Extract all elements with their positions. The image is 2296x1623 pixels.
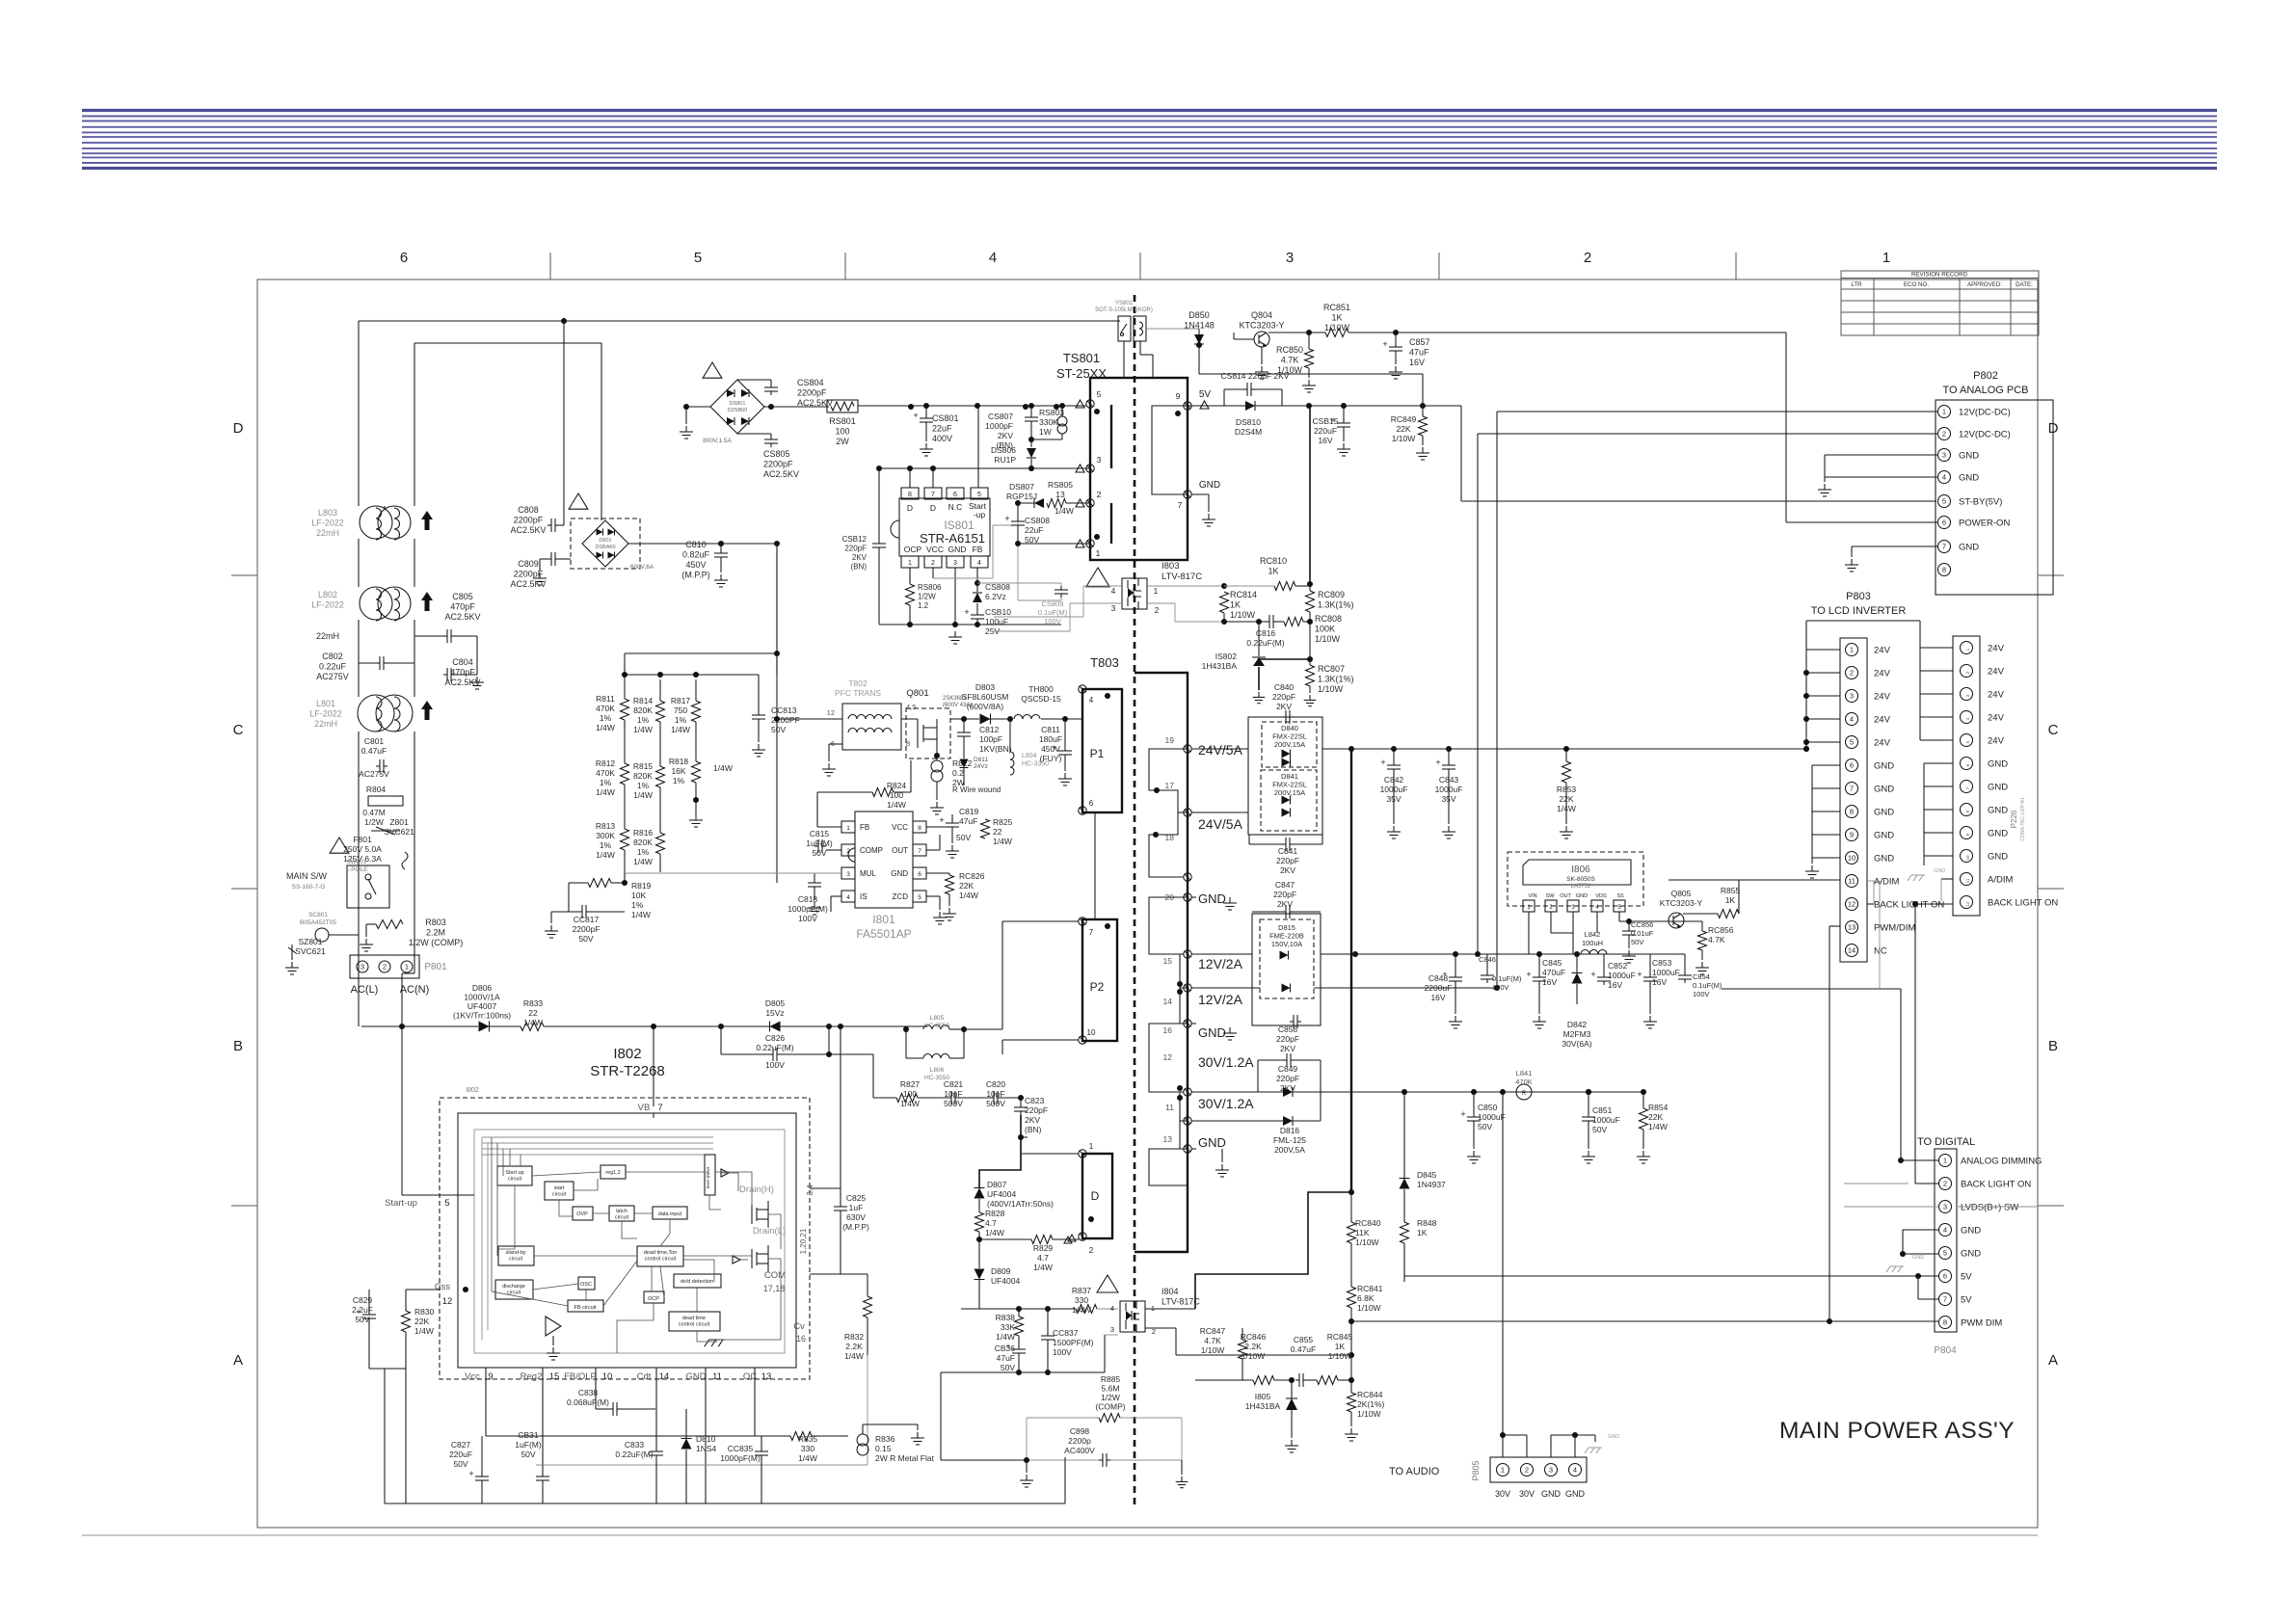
svg-text:R830: R830 [414,1307,435,1317]
svg-text:RC846: RC846 [1241,1332,1267,1342]
wire L801 down [358,732,360,957]
svg-text:CB36: CB36 [995,1344,1016,1353]
svg-text:2200pF: 2200pF [763,460,793,469]
svg-text:VIN: VIN [1528,893,1536,899]
svg-text:30V/1.2A: 30V/1.2A [1198,1054,1254,1070]
svg-text:OVP: OVP [576,1211,588,1217]
main switch SW801 [286,859,389,908]
svg-text:PWM DIM: PWM DIM [1961,1318,2002,1329]
svg-text:24Vz: 24Vz [974,763,988,770]
svg-text:4.7K: 4.7K [1281,356,1299,365]
svg-text:(M.P.P): (M.P.P) [842,1222,869,1232]
svg-text:6: 6 [400,250,408,266]
svg-text:47uF: 47uF [997,1353,1015,1363]
I802 stand-by circuit block [498,1246,534,1265]
svg-text:4: 4 [846,894,850,901]
inductor L841 [1515,1069,1533,1100]
svg-text:2KV: 2KV [1025,1115,1040,1125]
T803 secondary winding jogs [1149,749,1188,812]
svg-text:D: D [930,503,936,513]
I802 pin labels [385,1184,814,1382]
capacitor CSB15 [1313,403,1350,456]
wires IS801 area [909,568,911,584]
I802 data input block [653,1207,687,1219]
svg-text:7: 7 [1178,500,1183,510]
svg-text:VCC: VCC [926,545,944,554]
svg-text:circuit: circuit [552,1192,567,1198]
svg-text:6: 6 [1089,799,1094,808]
svg-text:P802: P802 [1973,370,1998,382]
svg-text:12: 12 [1965,901,1970,907]
svg-text:2200pF: 2200pF [514,570,544,579]
T803 pin7 [1079,918,1086,925]
svg-text:Z801: Z801 [389,817,409,827]
svg-text:24V: 24V [1874,692,1891,703]
svg-text:1/4W: 1/4W [523,1018,543,1027]
svg-text:1/4W: 1/4W [1033,1263,1053,1272]
svg-text:P803: P803 [1846,591,1871,602]
svg-text:330: 330 [801,1444,814,1453]
svg-text:CS814 220pF 2KV: CS814 220pF 2KV [1221,371,1290,381]
capacitor C816 [1224,615,1285,648]
svg-text:8: 8 [908,492,912,498]
svg-text:1N4937: 1N4937 [1417,1180,1446,1189]
svg-text:1: 1 [405,963,409,971]
svg-text:CC817: CC817 [574,915,600,924]
svg-text:220uF: 220uF [449,1450,472,1459]
sheet lower faint line [82,1534,2038,1536]
svg-text:1000pF: 1000pF [985,421,1013,431]
svg-text:RC844: RC844 [1357,1390,1383,1399]
svg-text:13: 13 [761,1371,772,1382]
svg-text:TO ANALOG PCB: TO ANALOG PCB [1942,385,2028,396]
svg-text:GND: GND [1988,852,2008,863]
wire ANALOG DIMMING [1901,1159,1938,1161]
revision record table [1841,271,2039,335]
svg-text:D842: D842 [1567,1020,1588,1029]
wire YS801 to TS801 [1123,341,1125,378]
svg-text:50V: 50V [956,833,971,842]
svg-text:+: + [1004,514,1009,523]
resistor R815 [633,722,665,800]
svg-text:4: 4 [1573,1466,1577,1475]
svg-text:C840: C840 [1274,682,1295,692]
svg-text:630V: 630V [846,1212,866,1222]
svg-text:+: + [1380,758,1385,767]
svg-text:GND: GND [1961,1226,1981,1237]
warning triangle F801 [330,838,349,853]
P226 chassis gnd [1911,874,1925,876]
svg-text:1NS4: 1NS4 [696,1444,717,1453]
svg-text:AC275V: AC275V [359,769,389,779]
svg-text:2: 2 [1943,1180,1947,1188]
shunt reg IS802 [1202,619,1313,704]
svg-text:7: 7 [1943,1295,1947,1304]
capacitor CC835 [720,1436,768,1503]
svg-text:I803: I803 [1161,561,1180,572]
svg-text:1/10W: 1/10W [1357,1409,1381,1419]
svg-text:RC808: RC808 [1315,614,1342,624]
capacitor C847 [1252,880,1321,918]
capacitor CS809 [977,522,1068,625]
svg-text:22K: 22K [414,1317,429,1326]
svg-text:22: 22 [993,827,1002,837]
svg-text:R813: R813 [596,821,616,831]
resistor RS805 [1047,480,1090,516]
svg-text:RC845: RC845 [1327,1332,1353,1342]
svg-text:5: 5 [1942,497,1946,506]
svg-text:12: 12 [442,1296,453,1307]
svg-text:COM: COM [764,1270,786,1281]
svg-text:24V: 24V [1988,713,2005,724]
capacitor C841 [1249,835,1322,875]
resistor R835 [755,1432,848,1464]
svg-text:TH800: TH800 [1028,684,1054,694]
I802 pin stubs bottom [486,1368,755,1503]
zener CS808 6.2Vz [973,568,1010,602]
warning triangle DS801 [703,362,722,378]
svg-text:GND: GND [1198,1025,1226,1040]
svg-text:OUT: OUT [892,846,908,855]
svg-text:2K(1%): 2K(1%) [1357,1399,1385,1409]
svg-text:D2S4M: D2S4M [1235,427,1262,437]
svg-text:1/10W: 1/10W [1230,610,1256,620]
svg-text:1%: 1% [675,715,687,725]
T803 pin4 [1079,685,1086,693]
svg-text:6: 6 [1942,519,1946,527]
I802 start up circuit block [497,1166,532,1185]
svg-text:P804: P804 [1934,1345,1957,1356]
svg-text:CB31: CB31 [518,1430,539,1440]
svg-text:L803: L803 [318,508,337,518]
svg-text:1: 1 [1942,408,1946,416]
svg-text:FB/OLP: FB/OLP [564,1371,597,1382]
wire I806 SS to RC856 [1619,920,1702,922]
svg-text:2200pF: 2200pF [797,388,827,398]
svg-text:0.22uF(M): 0.22uF(M) [1246,638,1284,648]
I802 dead time Ton control block [637,1246,683,1266]
capacitor C833 [615,1440,663,1503]
svg-text:CSB15: CSB15 [1313,416,1339,426]
svg-text:0.01uF: 0.01uF [1631,929,1654,938]
svg-text:1: 1 [1943,1157,1947,1165]
svg-text:2W: 2W [836,437,849,446]
svg-text:L842: L842 [1585,930,1601,939]
capacitor C846 [1479,954,1522,992]
svg-text:C823: C823 [1025,1096,1045,1105]
svg-text:RC807: RC807 [1318,664,1345,674]
svg-text:5V: 5V [1961,1272,1972,1283]
wire between chokes [358,539,360,587]
resistor RS803 [1028,403,1067,442]
svg-text:C815: C815 [810,829,830,838]
svg-text:B05A452T05: B05A452T05 [300,919,336,926]
svg-text:GND: GND [1912,1255,1924,1261]
svg-text:17: 17 [1165,781,1175,790]
svg-text:GND: GND [1934,868,1945,874]
capacitor C854 [1678,954,1722,998]
wire DS801 left to gnd [686,406,710,408]
svg-text:D816: D816 [1280,1126,1300,1135]
svg-text:CS808: CS808 [985,582,1010,592]
svg-text:2200p: 2200p [1068,1436,1091,1446]
svg-text:1/4W: 1/4W [1072,1305,1091,1315]
svg-text:NC: NC [1874,946,1887,957]
svg-text:LF-2022: LF-2022 [311,519,344,528]
wire 30V bold joints [1586,1089,1591,1095]
svg-text:SC801: SC801 [308,912,328,918]
rectifier D815 FME-220B [1252,914,1321,1025]
svg-text:2200pF: 2200pF [514,516,544,525]
transformer T803 winding D [1082,1154,1112,1238]
diode D803 [950,682,1010,725]
svg-text:LTR: LTR [1851,281,1862,288]
P226 gnd bracket [1924,763,1953,865]
wire 24V to P803 top [1743,748,1806,750]
svg-text:GND: GND [1199,480,1220,491]
I802 internal gnd [709,1339,726,1341]
transformer T803 winding P1 [1082,689,1122,812]
svg-text:5: 5 [694,250,702,266]
svg-text:OCP: OCP [904,545,922,554]
svg-text:3: 3 [1110,1325,1114,1334]
svg-text:IS: IS [860,892,868,901]
svg-text:16K: 16K [671,766,685,776]
svg-text:0.22uF: 0.22uF [319,662,347,672]
resistor R813 [596,785,629,883]
MOSFET Q801 [906,688,972,758]
svg-text:R827: R827 [900,1079,921,1089]
svg-text:AC2.5KV: AC2.5KV [763,469,799,479]
resistor RC851 [1268,303,1350,337]
IC I801 FA5501AP [841,811,926,941]
resistor R833 [490,998,927,1031]
svg-text:D: D [907,503,913,513]
svg-text:F801: F801 [353,835,372,844]
svg-text:C811: C811 [1041,725,1060,734]
svg-text:LA5752: LA5752 [1571,884,1591,890]
svg-text:RC849: RC849 [1391,414,1417,424]
svg-text:1%: 1% [600,713,612,723]
svg-text:22: 22 [528,1008,538,1018]
svg-text:15: 15 [549,1371,560,1382]
svg-text:+: + [913,411,918,420]
svg-text:5: 5 [1943,1249,1947,1258]
diode D807 [974,1115,1055,1212]
diode DS810 [1159,401,1312,437]
I802 reg block [601,1165,626,1179]
svg-text:PWM/DIM: PWM/DIM [1874,923,1915,934]
svg-text:R812: R812 [596,758,616,768]
svg-text:RC810: RC810 [1260,556,1287,566]
wire PFC top rail [625,674,759,676]
svg-text:5: 5 [444,1198,449,1209]
svg-text:1.3K(1%): 1.3K(1%) [1318,675,1354,684]
svg-text:1/4W: 1/4W [596,787,615,797]
svg-text:GND: GND [1959,451,1979,462]
svg-text:30V(6A): 30V(6A) [1562,1039,1591,1049]
svg-text:3: 3 [953,560,957,567]
svg-text:FB: FB [860,823,869,832]
resistor RC845 [1317,1332,1354,1385]
svg-text:22mH: 22mH [316,631,339,641]
svg-text:6: 6 [1943,1272,1947,1281]
svg-text:24V: 24V [1988,667,2005,678]
svg-text:A: A [233,1352,243,1369]
inductor L804 [1007,716,1049,775]
capacitor C812 [957,716,1012,757]
svg-text:5.6M: 5.6M [1102,1384,1120,1394]
wire VB pin7 [653,1026,654,1106]
junction dots misc [908,404,914,410]
P803 24V feed bracket [1803,621,1920,752]
svg-text:2: 2 [1850,669,1854,678]
wire hv rail left down [358,957,360,1026]
svg-text:MAIN POWER ASS'Y: MAIN POWER ASS'Y [1779,1418,2015,1444]
svg-text:YS801: YS801 [1115,301,1134,306]
svg-text:GND: GND [1988,759,2008,770]
svg-text:1: 1 [846,825,850,832]
polarity arrow L801 [421,701,433,720]
svg-text:1/10W: 1/10W [1241,1351,1266,1361]
svg-text:GND: GND [1608,1434,1619,1440]
wires P805 [1502,1092,1504,1457]
I802 latch circuit block [609,1206,634,1221]
wire I803 pin2 to lower net [1147,602,1175,604]
wire 12V rail to caps [1403,953,1685,955]
svg-text:C808: C808 [518,505,539,515]
svg-text:FB circuit: FB circuit [574,1305,597,1311]
capacitor CC817 [545,905,625,944]
resistor RC846 [1195,1332,1292,1385]
resistor R829 [979,1236,1079,1273]
resistor RC808 [1284,612,1342,644]
svg-text:MAIN S/W: MAIN S/W [286,871,328,881]
svg-text:220pF: 220pF [1276,1074,1299,1083]
svg-text:10: 10 [1848,854,1855,863]
svg-text:C821: C821 [944,1079,964,1089]
svg-text:(BN): (BN) [1025,1125,1042,1134]
svg-text:start: start [554,1185,565,1191]
svg-text:50V: 50V [1478,1122,1492,1131]
svg-text:12: 12 [1848,900,1855,909]
svg-text:220pF: 220pF [1273,890,1296,899]
svg-text:dv/d detection: dv/d detection [681,1279,713,1285]
svg-text:ECO NO.: ECO NO. [1904,281,1929,288]
svg-text:I802: I802 [613,1046,641,1062]
svg-text:+: + [1526,970,1531,979]
inductor L806 [903,921,1079,1081]
wire I801 pin connections [817,826,841,828]
svg-text:1.2: 1.2 [918,601,929,610]
wires P802 pins 1-2 12V rails [1497,411,1937,412]
svg-text:250V 5.0A: 250V 5.0A [343,844,382,854]
svg-text:5: 5 [1097,389,1102,399]
resistor R825 [981,817,1013,846]
svg-text:D811: D811 [974,757,988,763]
wire start-up into I802 [402,1194,474,1196]
svg-text:6: 6 [953,492,957,498]
wire 5V to ST-BY [1309,405,1461,407]
svg-text:R854: R854 [1648,1103,1669,1112]
svg-text:R816: R816 [633,828,654,838]
svg-text:15: 15 [1163,956,1173,966]
svg-text:R811: R811 [596,694,615,704]
wire AC second run [414,342,601,344]
svg-text:100: 100 [835,427,849,437]
svg-text:R814: R814 [633,696,654,705]
svg-text:50V: 50V [812,848,826,858]
svg-text:1K: 1K [1335,1342,1346,1351]
svg-text:B: B [233,1038,243,1054]
svg-text:I801: I801 [872,913,895,926]
svg-text:C841: C841 [1278,846,1298,856]
svg-text:1000V/1A: 1000V/1A [464,993,500,1002]
bridge rectifier D801 (PFC) [571,519,654,571]
resistor R812 [596,720,629,797]
svg-text:1K: 1K [1230,600,1241,610]
svg-text:5: 5 [918,894,921,901]
svg-text:2: 2 [1155,606,1160,615]
svg-text:R824: R824 [887,781,907,790]
svg-text:M2FM3: M2FM3 [1563,1029,1591,1039]
svg-text:220pF: 220pF [1276,856,1299,865]
svg-text:LF-2022: LF-2022 [311,600,344,610]
wires P802 gnd pins 3-4 [1825,454,1937,456]
svg-text:I802: I802 [466,1087,479,1094]
svg-text:UF4004: UF4004 [991,1276,1021,1286]
svg-text:16V: 16V [1652,977,1667,987]
inductor L805 [923,1015,949,1029]
svg-text:1/4W: 1/4W [1055,506,1074,516]
svg-text:47uF: 47uF [1409,348,1429,358]
svg-text:15Vz: 15Vz [765,1008,784,1018]
svg-text:1/4W: 1/4W [985,1228,1004,1237]
svg-text:IS802: IS802 [1215,652,1237,661]
svg-text:5V: 5V [1199,389,1212,400]
svg-text:VDS: VDS [1595,893,1607,899]
wire 24V rail to trunk [1191,748,1248,750]
svg-text:1uF: 1uF [849,1203,864,1212]
svg-text:GND: GND [891,869,908,878]
resistor R838 [996,1309,1024,1345]
varistor Z801 [371,817,414,837]
svg-text:(600V/8A): (600V/8A) [967,702,1003,711]
svg-text:100: 100 [903,1089,917,1099]
svg-text:TO LCD INVERTER: TO LCD INVERTER [1811,605,1907,617]
svg-text:12V/2A: 12V/2A [1198,992,1243,1007]
svg-text:R836: R836 [875,1434,895,1444]
svg-text:1/4W: 1/4W [993,837,1012,846]
svg-text:GND: GND [1988,806,2008,816]
svg-text:C801: C801 [364,736,385,746]
svg-text:LF-2022: LF-2022 [309,709,342,719]
connector P803 [1840,638,1944,962]
capacitor C826 [721,1024,832,1070]
svg-text:(1KV/Trr:100ns): (1KV/Trr:100ns) [453,1011,511,1021]
svg-text:50V: 50V [355,1315,369,1324]
capacitor C852 [1590,954,1635,990]
wire opto bottom bus [941,1371,1105,1373]
wires I806 pins down [1528,912,1530,954]
svg-text:7: 7 [918,848,921,855]
svg-text:3,4: 3,4 [806,1184,814,1196]
svg-text:RC826: RC826 [959,871,985,881]
decorative header band [82,111,2217,169]
svg-text:+: + [1435,758,1440,767]
capacitor C810 [681,540,728,587]
svg-text:2.2M: 2.2M [426,928,445,938]
